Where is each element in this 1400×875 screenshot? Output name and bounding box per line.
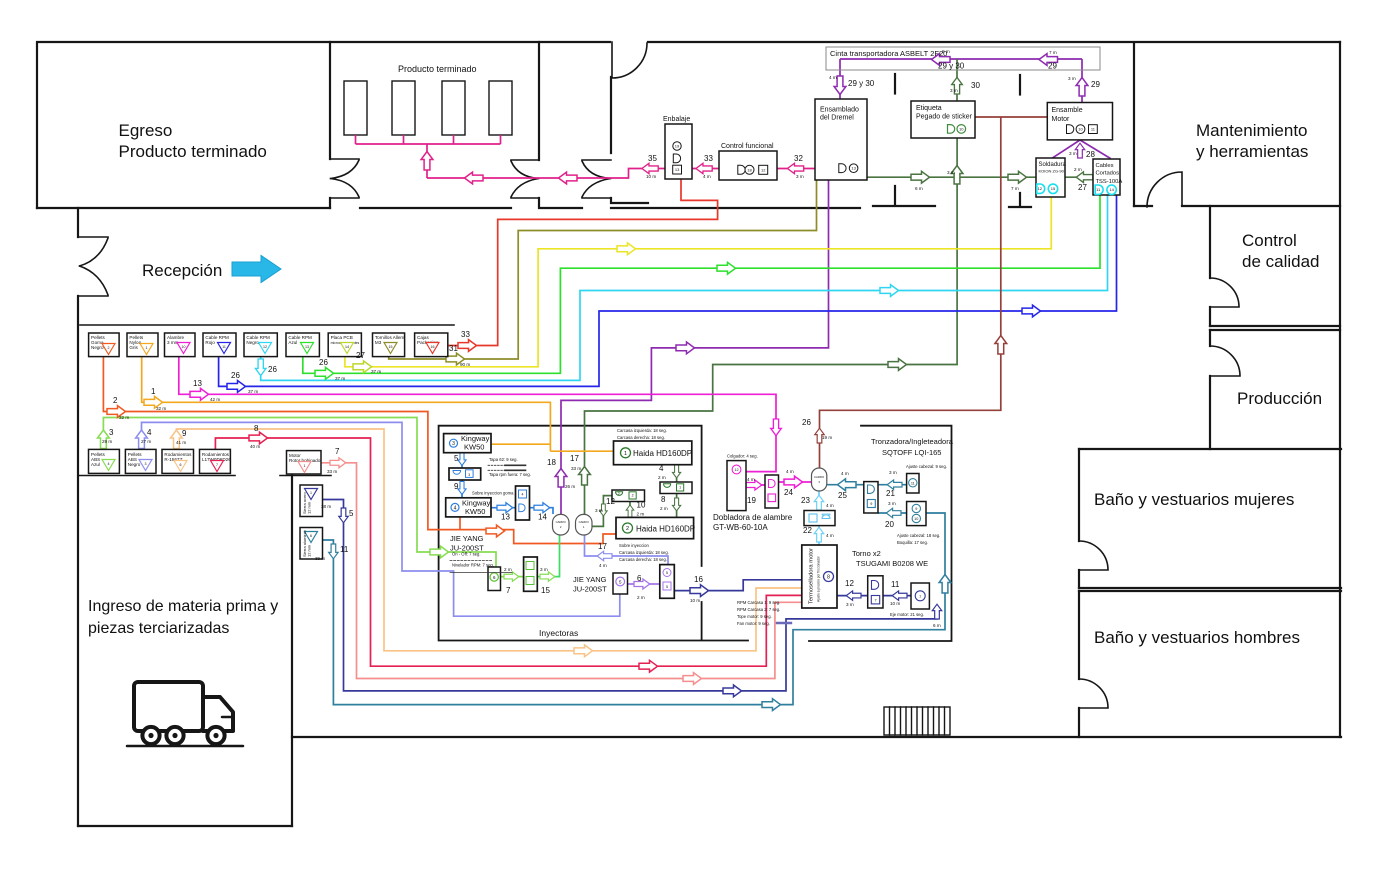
- wire magenta route alambre to dobladora: [179, 357, 812, 485]
- wire pink main corridor: [427, 169, 815, 179]
- wall Bano mujeres bottom: [1079, 587, 1341, 589]
- svg-text:Carcasa izquierda: 18 seg.: Carcasa izquierda: 18 seg.: [619, 550, 669, 555]
- svg-text:5: 5: [666, 571, 668, 575]
- svg-text:CARRO: CARRO: [814, 475, 825, 479]
- svg-text:37 m: 37 m: [248, 389, 258, 394]
- wall shelf room right: [538, 42, 540, 160]
- metre labels: [102, 49, 1082, 628]
- svg-text:12 mm: 12 mm: [307, 501, 312, 514]
- svg-text:40 m: 40 m: [250, 444, 260, 449]
- arrow teal left 25: [838, 479, 857, 491]
- wall T bar workstation 1: [873, 186, 935, 206]
- svg-text:Negro: Negro: [246, 340, 259, 345]
- svg-text:3: 3: [109, 428, 114, 437]
- arrow magenta 24: [784, 476, 803, 488]
- machine box Cable RPM Negro: [244, 333, 277, 357]
- svg-text:14: 14: [345, 345, 349, 349]
- svg-text:Haida HD160DP: Haida HD160DP: [636, 525, 695, 534]
- svg-text:7: 7: [506, 586, 511, 595]
- wire redorange route pellets goma to haida2: [103, 357, 615, 544]
- wire purple link 6: [628, 583, 660, 585]
- arrow darkgreen down 8: [672, 498, 680, 511]
- inyectoras machine texts: [450, 434, 696, 594]
- machine box Pellets ABS Azul: [89, 449, 120, 473]
- svg-text:Cinta transportadora ASBELT 2F: Cinta transportadora ASBELT 2F20: [830, 49, 947, 58]
- svg-text:10 m: 10 m: [890, 601, 900, 606]
- svg-text:RPM Carcasa 2: 7 seg.: RPM Carcasa 2: 7 seg.: [737, 607, 780, 612]
- svg-text:23: 23: [801, 496, 810, 505]
- arrow salmon right bottom: [683, 673, 702, 685]
- svg-text:13: 13: [193, 379, 202, 388]
- svg-text:21: 21: [886, 489, 895, 498]
- wire navy route sierra acero to torno: [323, 500, 938, 691]
- svg-text:Azul: Azul: [91, 462, 100, 467]
- svg-text:16: 16: [694, 575, 703, 584]
- svg-text:4: 4: [147, 428, 152, 437]
- svg-text:M3: M3: [375, 340, 382, 345]
- arrow pink 32: [787, 163, 803, 173]
- svg-text:Eje motor: 21 seg.: Eje motor: 21 seg.: [890, 612, 924, 617]
- room label Mantenimiento: [1196, 121, 1308, 161]
- svg-text:Soldadura: Soldadura: [1039, 162, 1067, 168]
- arrow pink left 1: [465, 172, 484, 184]
- svg-text:33: 33: [461, 330, 470, 339]
- truck wheel 3: [207, 727, 224, 744]
- svg-text:27: 27: [1078, 183, 1087, 192]
- machine Ensamblado del Dremel: [815, 99, 867, 180]
- svg-text:JU-200ST: JU-200ST: [573, 585, 607, 594]
- svg-text:8: 8: [661, 495, 666, 504]
- svg-text:7: 7: [335, 447, 340, 456]
- arrow navy down 5: [339, 508, 348, 523]
- svg-text:9: 9: [182, 429, 187, 438]
- svg-text:3 m: 3 m: [846, 602, 854, 607]
- svg-text:18: 18: [747, 167, 752, 172]
- machine tronzadora box11: [907, 474, 919, 494]
- arrow salmon right 7: [330, 458, 346, 468]
- wall stub below top wall at x895: [894, 74, 896, 94]
- wall Produccion left lower: [1209, 376, 1211, 449]
- svg-text:Carcasa derecha: 18 seg.: Carcasa derecha: 18 seg.: [619, 557, 667, 562]
- svg-text:10 m: 10 m: [646, 174, 656, 179]
- arrow amber right 1: [144, 396, 163, 408]
- arrow teal up riser: [939, 575, 951, 594]
- svg-text:4 m: 4 m: [829, 75, 837, 80]
- machine haida2 top iconbox: [612, 490, 645, 502]
- door Produccion arc: [1210, 346, 1240, 376]
- svg-text:11: 11: [891, 580, 900, 589]
- svg-text:10: 10: [959, 126, 964, 131]
- arrow teal right bottom: [762, 699, 781, 711]
- dobladora icons: [732, 465, 776, 502]
- wire purple route 18 carro2 to ensamblado: [561, 180, 829, 514]
- machine tronzadora Dbox: [864, 482, 878, 513]
- svg-text:12: 12: [263, 345, 267, 349]
- svg-text:Cortados: Cortados: [1096, 171, 1120, 177]
- svg-text:Tope motor: 9 seg.: Tope motor: 9 seg.: [737, 614, 772, 619]
- svg-text:Nivelador RPM: 7 seg.: Nivelador RPM: 7 seg.: [452, 563, 494, 568]
- svg-text:37 m: 37 m: [371, 369, 381, 374]
- svg-text:3: 3: [145, 462, 147, 466]
- svg-text:3 m: 3 m: [950, 88, 958, 93]
- wire green route cable rpm azul: [303, 195, 1100, 373]
- svg-text:KW50: KW50: [465, 507, 485, 516]
- svg-text:13: 13: [675, 167, 680, 172]
- svg-text:Mantenimiento: Mantenimiento: [1196, 121, 1308, 140]
- wall Control de calidad left lower: [1209, 307, 1211, 326]
- svg-text:4: 4: [108, 462, 110, 466]
- machine jieyang1 box6: [488, 567, 501, 591]
- svg-text:Sobre inyeccion goma: Sobre inyeccion goma: [472, 491, 514, 496]
- svg-text:3 m: 3 m: [1069, 151, 1077, 156]
- svg-text:13: 13: [851, 166, 856, 171]
- svg-text:28: 28: [1086, 150, 1095, 159]
- arrow darkgreen right c1: [911, 171, 930, 183]
- svg-text:26: 26: [802, 418, 811, 427]
- svg-text:Haida HD160DP: Haida HD160DP: [633, 449, 692, 458]
- svg-text:Recepción: Recepción: [142, 261, 222, 280]
- arrow teal left 20: [886, 508, 901, 517]
- arrow darkgreen up 17: [579, 467, 591, 486]
- svg-text:19: 19: [675, 144, 680, 149]
- arrow purple conveyor left 2: [1039, 54, 1058, 66]
- small icons in inyectoras boxes: [453, 470, 527, 512]
- svg-text:3 m: 3 m: [540, 567, 548, 572]
- icons: D shapes, circles, squares in top machines: [673, 125, 1098, 175]
- arrow darkgreen left 27: [1076, 172, 1093, 183]
- svg-text:TSUGAMI B0208 WE: TSUGAMI B0208 WE: [856, 559, 928, 568]
- svg-text:4 m: 4 m: [826, 533, 834, 538]
- arrow lime 15: [540, 572, 555, 581]
- machine box Cajas Packaging: [415, 333, 448, 357]
- svg-text:26: 26: [231, 371, 240, 380]
- arrow teal down 11: [329, 544, 338, 559]
- arrow purple up 18: [555, 469, 567, 488]
- svg-text:5: 5: [666, 585, 668, 589]
- svg-text:32 m: 32 m: [156, 406, 166, 411]
- wire springgreen carro2 drop: [537, 536, 559, 577]
- svg-text:7: 7: [216, 463, 218, 467]
- svg-text:10: 10: [182, 345, 186, 349]
- svg-text:15: 15: [389, 345, 393, 349]
- svg-text:2: 2: [632, 494, 634, 498]
- machine Termoselladora: [802, 545, 837, 608]
- machine box Alambre 3mm: [165, 333, 196, 357]
- door top wall arc at x612: [612, 42, 647, 78]
- arrow kblue right 13: [497, 503, 513, 513]
- wire olive route tornillos to ensamblado: [389, 180, 817, 359]
- svg-text:10: 10: [637, 501, 646, 510]
- arrow cyan down 26: [255, 359, 266, 376]
- wall Egreso bottom: [37, 207, 330, 209]
- machine jieyang2 box5: [613, 573, 628, 594]
- arrow olive right 31: [446, 353, 465, 365]
- svg-text:3 m: 3 m: [1068, 76, 1076, 81]
- svg-text:24: 24: [784, 488, 793, 497]
- machine box Rodamientos L17: [200, 449, 231, 473]
- svg-text:Ajuste cabezal: 18 seg.: Ajuste cabezal: 18 seg.: [897, 533, 940, 538]
- wall bench row2: [78, 475, 235, 477]
- truck wheel 1: [142, 727, 159, 744]
- svg-text:RPM Carcasa 1: 9 seg.: RPM Carcasa 1: 9 seg.: [737, 600, 780, 605]
- svg-text:2: 2: [113, 396, 118, 405]
- svg-text:2 m: 2 m: [637, 595, 645, 600]
- machine jieyang2 tallbox: [660, 565, 675, 599]
- machine torno Dbox: [868, 576, 883, 608]
- svg-text:Enbalaje: Enbalaje: [663, 116, 690, 123]
- svg-text:3: 3: [468, 473, 470, 477]
- svg-text:12 mm: 12 mm: [307, 544, 312, 557]
- machine Soldadura: [1036, 158, 1065, 197]
- wire skyblue termoselladora to carro3: [818, 491, 820, 545]
- wall Bano mujeres left lower: [1078, 570, 1080, 588]
- svg-text:26: 26: [268, 365, 277, 374]
- wire salmon route motor rotor to termoselladora: [321, 463, 802, 679]
- svg-text:2 m: 2 m: [660, 506, 668, 511]
- arrow purple up 29: [1076, 78, 1088, 97]
- wall Bano mujeres left upper: [1078, 449, 1080, 541]
- svg-text:3 m: 3 m: [888, 501, 896, 506]
- wire yellow route placa pcb to soldadura: [345, 197, 1051, 367]
- svg-text:90 m: 90 m: [460, 362, 470, 367]
- wire darkgreen etiqueta conveyor stub: [956, 59, 958, 101]
- arrow pink 33: [696, 163, 712, 173]
- machine Haida HD160DP 1: [614, 441, 692, 465]
- wall Ingreso left: [77, 208, 79, 826]
- svg-text:6: 6: [180, 463, 182, 467]
- svg-text:2 m: 2 m: [504, 567, 512, 572]
- machine kingway iconbox: [449, 468, 481, 480]
- room label Egreso: [119, 121, 267, 161]
- wall stub below top wall at x1020: [1019, 75, 1021, 95]
- truck wheel 2: [166, 727, 183, 744]
- carro ovals: [553, 468, 827, 535]
- arrow purple right mid: [676, 342, 695, 354]
- svg-text:10: 10: [914, 517, 918, 521]
- svg-text:17: 17: [598, 542, 607, 551]
- arrow lime 7: [504, 572, 519, 581]
- arrow blue right upper: [1022, 305, 1041, 317]
- svg-text:Carcasa derecha: 18 seg.: Carcasa derecha: 18 seg.: [617, 435, 665, 440]
- svg-text:Fan motor: 9 seg.: Fan motor: 9 seg.: [737, 621, 770, 626]
- shelf 4: [489, 81, 512, 135]
- arrow magenta down: [771, 419, 782, 436]
- svg-text:GT-WB-60-10A: GT-WB-60-10A: [713, 523, 768, 532]
- wall partition at x611 below top door: [610, 77, 612, 153]
- small captions: [452, 428, 947, 626]
- wire navy torno chain: [837, 595, 911, 597]
- etiqueta green icons: [948, 125, 966, 134]
- wire periwinkle link 17 jieyang2 to carro1: [585, 536, 669, 565]
- svg-text:13: 13: [305, 345, 309, 349]
- wall Control de calidad bottom: [1210, 325, 1340, 327]
- arrow purple 6: [634, 579, 650, 589]
- svg-text:4: 4: [454, 505, 457, 511]
- svg-text:15: 15: [1051, 186, 1056, 191]
- svg-text:17: 17: [570, 454, 579, 463]
- svg-text:12: 12: [734, 468, 738, 472]
- arrow navy up torno: [932, 604, 941, 619]
- arrow navy right bottom: [723, 685, 742, 697]
- wall shelf room bottom: [360, 207, 511, 209]
- svg-text:3 m: 3 m: [889, 470, 897, 475]
- wall Tronzadora enclosure: [809, 426, 952, 641]
- svg-text:Producto terminado: Producto terminado: [398, 64, 477, 74]
- svg-text:Sobre inyeccion: Sobre inyeccion: [619, 543, 649, 548]
- arrow maroon up 26: [815, 428, 824, 443]
- svg-text:8: 8: [827, 575, 830, 581]
- svg-text:41 m: 41 m: [176, 440, 186, 445]
- svg-text:5: 5: [349, 509, 354, 518]
- svg-text:27: 27: [356, 351, 365, 360]
- svg-text:4 m: 4 m: [841, 471, 849, 476]
- arrow green right 26: [315, 367, 334, 379]
- arrow purple up 28: [1075, 143, 1084, 158]
- svg-text:Baño y vestuarios mujeres: Baño y vestuarios mujeres: [1094, 490, 1294, 509]
- svg-text:7: 7: [919, 595, 921, 599]
- wall segment bottom between doors: [539, 198, 582, 208]
- svg-text:4 m: 4 m: [599, 563, 607, 568]
- wall shelf room below door to bottom: [329, 198, 331, 208]
- svg-text:Producción: Producción: [1237, 389, 1322, 408]
- svg-text:9: 9: [454, 482, 459, 491]
- arrow kblue down 9: [458, 482, 466, 495]
- wire haida darkgreen links: [592, 465, 677, 527]
- arrow maroon up mid: [995, 336, 1007, 355]
- svg-text:29: 29: [1091, 80, 1100, 89]
- svg-text:2: 2: [108, 346, 110, 350]
- machine dobladora iconbox: [765, 475, 779, 508]
- arrow magenta 13: [190, 388, 209, 400]
- wire kingway blue links: [462, 453, 553, 514]
- tronzadora icons: [867, 479, 920, 523]
- svg-text:2 m: 2 m: [658, 475, 666, 480]
- svg-text:de calidad: de calidad: [1242, 252, 1320, 271]
- svg-text:Negro: Negro: [128, 462, 141, 467]
- arrow darkgreen down 4: [672, 465, 680, 478]
- wall Produccion left upper: [1209, 330, 1211, 346]
- svg-text:6 m: 6 m: [915, 186, 923, 191]
- door corridor double swing: [582, 160, 611, 198]
- machine box Tornillos Allem: [373, 333, 405, 357]
- truck cab: [203, 697, 233, 731]
- svg-text:33 m: 33 m: [571, 466, 581, 471]
- svg-text:11: 11: [911, 481, 915, 485]
- svg-text:27 m: 27 m: [141, 439, 151, 444]
- arrow peach up 9: [171, 430, 183, 449]
- arrow sky up 22: [814, 527, 823, 542]
- wall bench motor: [280, 475, 331, 477]
- svg-text:8: 8: [254, 424, 259, 433]
- wall elbow near Enbalaje: [611, 198, 648, 203]
- torno icons: [871, 581, 925, 604]
- svg-text:30: 30: [971, 81, 980, 90]
- svg-text:On - Off: 7 seg.: On - Off: 7 seg.: [452, 552, 481, 557]
- arrow periwinkle left 17: [597, 551, 612, 560]
- arrow peach right bottom: [574, 645, 593, 657]
- wire purple ensamble motor V: [1052, 140, 1111, 159]
- svg-text:35: 35: [648, 154, 657, 163]
- svg-text:piezas terciarizadas: piezas terciarizadas: [88, 620, 229, 637]
- svg-text:15: 15: [541, 586, 550, 595]
- svg-text:Rojo: Rojo: [205, 340, 215, 345]
- arrow redorange right mid: [486, 525, 505, 537]
- machine box Motor Rotor bobinado: [287, 451, 322, 474]
- door Bano hombres arc: [1079, 679, 1108, 708]
- wall Bano hombres left lower: [1078, 708, 1080, 737]
- svg-text:3 m: 3 m: [947, 170, 955, 175]
- door Bano mujeres arc: [1079, 541, 1108, 570]
- svg-text:4 m: 4 m: [786, 469, 794, 474]
- wire blue route cable rpm rojo: [219, 195, 1117, 386]
- conveyor Cinta transportadora: [826, 47, 1100, 70]
- svg-text:1: 1: [304, 464, 306, 468]
- svg-text:4 m: 4 m: [703, 174, 711, 179]
- svg-text:2: 2: [618, 492, 620, 496]
- svg-text:del Dremel: del Dremel: [820, 115, 854, 122]
- sierra vertical captions: [302, 491, 312, 557]
- machine colgador box: [727, 461, 746, 511]
- arrow yellow right upper: [617, 243, 636, 255]
- wire darkgreen route 17 carro1 to etiqueta: [585, 139, 958, 515]
- arrow crimson right bottom: [639, 660, 658, 672]
- svg-text:Control: Control: [1242, 231, 1297, 250]
- wall corridor bottom long: [611, 207, 860, 209]
- arrow crimson right 8: [249, 432, 268, 444]
- svg-text:20: 20: [885, 520, 894, 529]
- room label Control de calidad: [1242, 231, 1320, 271]
- svg-text:CARRO: CARRO: [556, 520, 567, 524]
- svg-text:Ingreso de materia prima y: Ingreso de materia prima y: [88, 598, 278, 615]
- wire teal route sierra aluminio to tronzadora: [323, 513, 946, 705]
- arrow darkgreen right mid: [888, 359, 907, 371]
- svg-text:4 m: 4 m: [826, 503, 834, 508]
- icon arrow Recepcion: [232, 256, 281, 283]
- svg-text:5: 5: [454, 454, 459, 463]
- room label Ingreso: [88, 598, 278, 637]
- arrow teal left 21: [887, 480, 902, 489]
- svg-text:11: 11: [340, 545, 349, 554]
- svg-text:1: 1: [624, 451, 627, 457]
- svg-text:Negro: Negro: [91, 345, 104, 350]
- machine box Rodamientos R156ZZ: [162, 449, 194, 473]
- arrow darkgreen right c2: [1008, 171, 1027, 183]
- wire cyan route cable rpm negro: [261, 195, 1108, 380]
- arrow redorange right 2: [107, 406, 126, 418]
- svg-text:12: 12: [761, 167, 766, 172]
- svg-text:2 m: 2 m: [637, 512, 645, 517]
- wire red route cajas to enbalaje: [448, 180, 718, 346]
- machine Ensamble Motor: [1047, 103, 1112, 140]
- wall Bano mujeres top: [1079, 448, 1341, 450]
- svg-text:y herramientas: y herramientas: [1196, 142, 1308, 161]
- wire peach route rodamientos to termoselladora: [176, 429, 801, 651]
- carro 3: [812, 468, 827, 491]
- svg-text:1: 1: [310, 491, 312, 495]
- svg-text:7: 7: [874, 598, 876, 602]
- svg-text:Colgador: 4 seg.: Colgador: 4 seg.: [727, 454, 758, 459]
- arrow kblue right 14: [534, 503, 550, 513]
- svg-text:2: 2: [626, 526, 629, 532]
- arrow navy right 16: [690, 585, 709, 597]
- svg-text:1: 1: [151, 387, 156, 396]
- svg-text:Pegado de sticker: Pegado de sticker: [916, 114, 973, 121]
- svg-text:32 m: 32 m: [119, 415, 129, 420]
- truck body: [134, 682, 203, 731]
- grate rect: [884, 707, 950, 735]
- number labels: [109, 79, 1100, 595]
- wire periwinkle route pellets abs negro to jieyang2: [142, 422, 620, 616]
